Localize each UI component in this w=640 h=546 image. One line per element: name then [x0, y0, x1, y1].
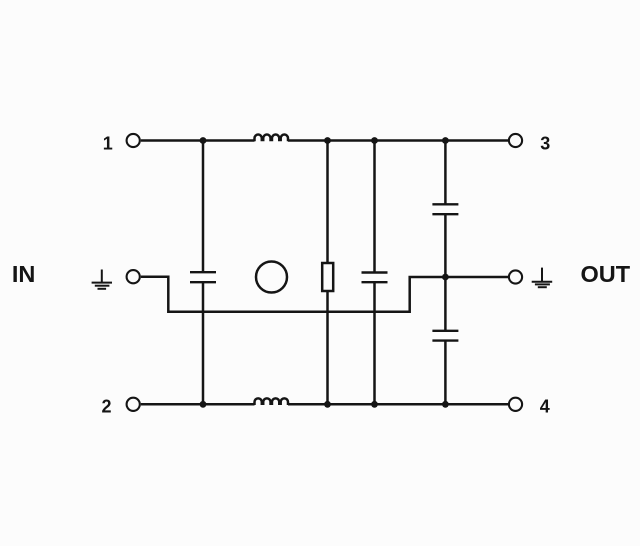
- svg-text:1: 1: [103, 133, 113, 153]
- svg-text:4: 4: [540, 396, 550, 416]
- svg-text:OUT: OUT: [580, 261, 630, 287]
- svg-text:3: 3: [540, 133, 550, 153]
- svg-text:IN: IN: [12, 261, 36, 287]
- svg-text:2: 2: [101, 396, 111, 416]
